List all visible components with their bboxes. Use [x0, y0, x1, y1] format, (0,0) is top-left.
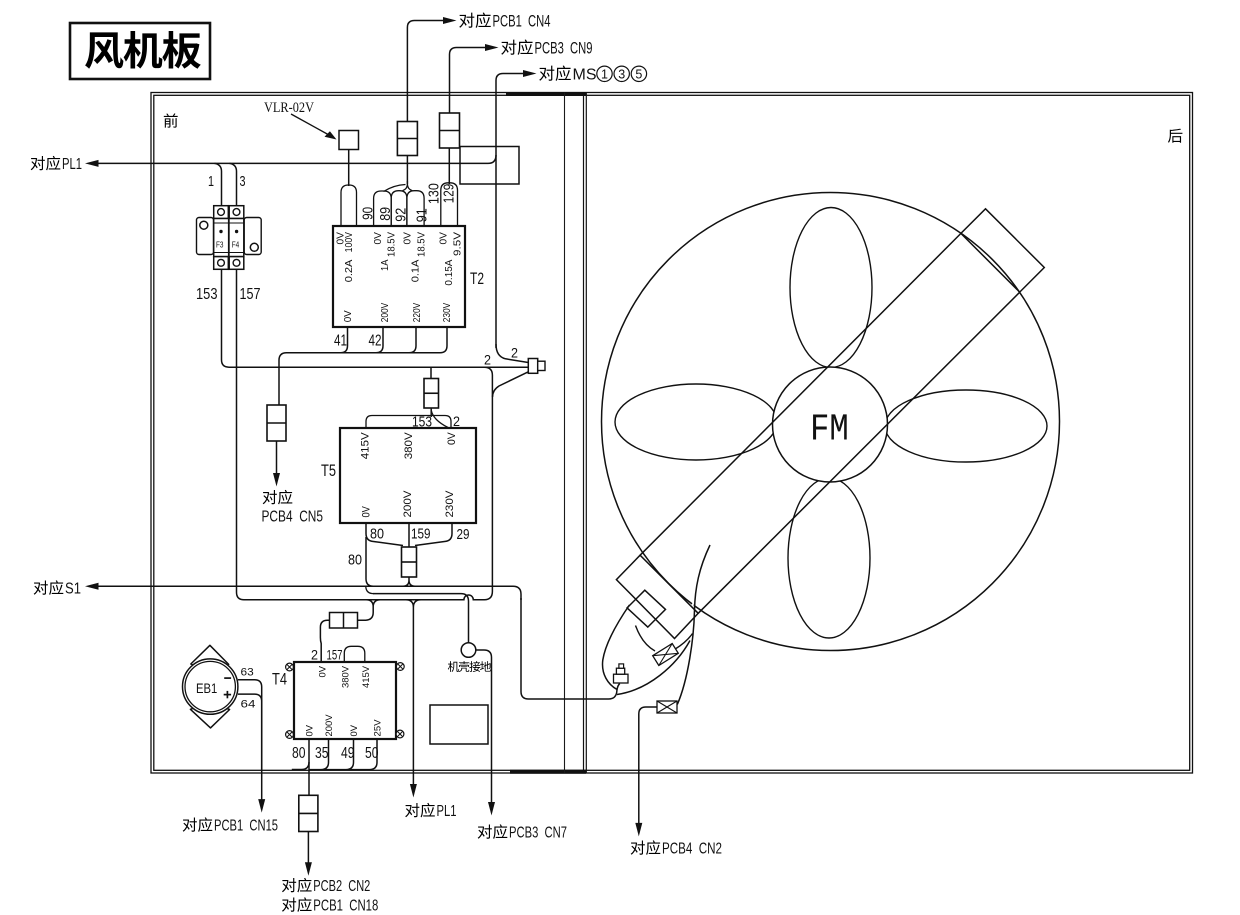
T2 pill feeds: [384, 181, 413, 192]
svg-text:220V: 220V: [412, 303, 423, 323]
EB1 outer circle: [183, 659, 238, 714]
label 对应PCB4 CN2: [631, 840, 645, 854]
label 对应 CN5: [263, 490, 277, 504]
VLR-02V box: [339, 131, 359, 150]
svg-text:415V: 415V: [361, 665, 372, 688]
wire PL1 bottom stub: [412, 772, 414, 786]
svg-text:29: 29: [457, 526, 470, 543]
svg-text:PCB2 CN2: PCB2 CN2: [313, 878, 370, 895]
svg-text:MS: MS: [573, 67, 597, 84]
arrowhead S1: [85, 583, 99, 590]
wire C5 to busS1: [403, 577, 415, 586]
svg-text:0V: 0V: [373, 232, 384, 245]
svg-text:157: 157: [327, 647, 343, 663]
label 对应PCB1 CN18: [282, 897, 296, 911]
arrowhead MS135: [523, 70, 537, 77]
bus S1 left part: [98, 586, 521, 600]
bar cap bottom R1: [616, 555, 698, 638]
label 对应S1: [34, 580, 48, 594]
svg-text:129: 129: [441, 184, 458, 204]
bus 153-plug: [229, 366, 528, 368]
svg-text:18.5V: 18.5V: [386, 232, 397, 257]
wire 157 down: [237, 269, 245, 599]
arrowhead PCB3 CN7: [488, 802, 495, 816]
svg-text:EB1: EB1: [196, 681, 217, 696]
svg-text:18.5V: 18.5V: [417, 232, 428, 257]
wire VLR to T2: [348, 150, 350, 187]
title text 风机板: [85, 32, 123, 68]
svg-text:153: 153: [196, 286, 218, 303]
svg-text:49: 49: [341, 745, 355, 762]
svg-text:41: 41: [334, 333, 347, 350]
T4 bottom wires: [308, 739, 310, 795]
svg-text:0V: 0V: [318, 665, 329, 677]
divider line left: [564, 93, 566, 774]
svg-text:415V: 415V: [359, 432, 371, 460]
bowtie connector 1: [653, 644, 679, 666]
arrowhead PCB1 CN15: [258, 799, 265, 813]
wire ground to CN7: [476, 650, 492, 772]
svg-text:200V: 200V: [402, 490, 414, 518]
svg-text:F3: F3: [216, 240, 224, 250]
svg-text:157: 157: [240, 286, 261, 303]
svg-text:PCB4 CN2: PCB4 CN2: [662, 841, 722, 858]
title box 风机板: [70, 23, 210, 79]
svg-text:VLR-02V: VLR-02V: [264, 100, 314, 116]
bar edge B: [698, 292, 1019, 613]
svg-text:0V: 0V: [403, 232, 414, 245]
svg-text:380V: 380V: [340, 665, 351, 688]
svg-text:0.2A: 0.2A: [344, 259, 355, 282]
arrowhead PL1 bottom: [410, 784, 417, 798]
bar edge A: [640, 234, 961, 556]
wire 64: [238, 694, 262, 771]
svg-text:0V: 0V: [438, 232, 449, 245]
plug 2 body: [528, 359, 537, 374]
divider line pair: [583, 93, 585, 774]
MS elbow to plug: [496, 344, 528, 363]
label 对应PL1 left: [31, 156, 45, 170]
svg-text:2: 2: [511, 345, 518, 361]
svg-text:0V: 0V: [343, 310, 354, 322]
bus A T2-bottom: [279, 353, 440, 405]
svg-text:230V: 230V: [444, 490, 456, 518]
T5 lead bracket: [366, 416, 451, 429]
bus C 157 line: [244, 595, 485, 600]
wire 3 to fuse: [230, 163, 237, 205]
transformer T5 box: [340, 428, 476, 523]
plug diagonal wire: [493, 372, 529, 397]
junction hook 80-157: [366, 587, 374, 594]
VLR leader line: [291, 114, 329, 135]
svg-text:91: 91: [414, 208, 431, 222]
wire 1 to fuse: [215, 163, 222, 205]
label 对应PCB2 CN2: [282, 878, 296, 892]
motor lead right edge: [677, 545, 710, 705]
svg-text:80: 80: [348, 552, 362, 569]
svg-text:PL1: PL1: [62, 156, 82, 173]
arrowhead PCB4 CN2: [635, 823, 642, 837]
bowtie1 feed wires: [636, 626, 693, 652]
border thick bottom segment: [510, 770, 586, 774]
EB1 minus: [224, 677, 231, 679]
svg-text:0V: 0V: [305, 724, 316, 736]
wire CN7 below border: [491, 772, 493, 804]
FM plug: [614, 674, 629, 683]
wire C3 to T5: [430, 408, 432, 417]
fuse block F3 F4: [197, 218, 214, 255]
label 对应MS①③⑤: [539, 66, 554, 81]
wire MS vertical: [496, 74, 523, 349]
svg-text:230V: 230V: [442, 303, 453, 323]
label 对应PCB1 CN4: [459, 13, 474, 28]
label 后: [1168, 129, 1182, 143]
wire C1 to T2: [406, 156, 408, 185]
connector C4: [267, 405, 286, 441]
svg-text:90: 90: [360, 207, 377, 220]
svg-text:2: 2: [311, 647, 318, 663]
svg-text:89: 89: [377, 207, 394, 221]
svg-text:100V: 100V: [344, 232, 355, 253]
fan blade right: [885, 390, 1047, 462]
svg-text:80: 80: [370, 526, 384, 543]
svg-text:2: 2: [484, 352, 491, 368]
T5 bracket branch: [431, 410, 448, 428]
motor lead left edge: [603, 605, 630, 690]
svg-text:PCB4 CN5: PCB4 CN5: [262, 509, 324, 526]
wire 80 down: [366, 537, 374, 586]
VLR leader arrowhead: [325, 131, 337, 139]
svg-text:42: 42: [369, 333, 382, 350]
arrowhead PCB4 CN5: [273, 473, 280, 487]
T5 bottom wires: [366, 523, 452, 547]
svg-text:35: 35: [315, 745, 329, 762]
bowtie connector 2: [657, 701, 677, 713]
label 机壳接地: [448, 661, 459, 672]
wire drop to C6: [358, 600, 381, 621]
label 对应PCB3 CN9: [501, 40, 516, 55]
transformer T2 box: [333, 226, 465, 327]
svg-text:1: 1: [601, 68, 608, 82]
svg-text:0V: 0V: [360, 506, 372, 518]
svg-text:9.5V: 9.5V: [452, 232, 463, 256]
wire drop to C3: [430, 367, 432, 378]
wire plug branch down: [484, 367, 492, 600]
svg-text:159: 159: [411, 526, 431, 543]
connector C6: [330, 613, 358, 629]
border thick top segment: [506, 92, 586, 96]
FM hub circle: [773, 367, 888, 482]
arrowhead PL1 left: [85, 160, 99, 167]
fan blade bottom: [788, 478, 870, 638]
svg-text:200V: 200V: [324, 714, 335, 737]
svg-text:T5: T5: [321, 462, 336, 480]
junction box: [460, 147, 519, 185]
svg-text:200V: 200V: [380, 303, 391, 323]
connector C7: [299, 795, 318, 831]
svg-text:PCB3 CN7: PCB3 CN7: [509, 825, 567, 842]
wire to PCB1 CN4: [407, 21, 443, 122]
svg-text:FM: FM: [810, 408, 849, 451]
wire to PCB3 CN9: [450, 48, 486, 114]
fan blade left: [615, 384, 777, 460]
fan blade top: [790, 208, 872, 368]
plug 2 nub: [538, 361, 545, 370]
svg-text:64: 64: [241, 699, 256, 711]
wire C6 to T4: [320, 620, 329, 662]
wire C7 arrow: [307, 832, 309, 865]
label 对应PL1 bottom: [405, 803, 419, 817]
T2 lead pills: [341, 185, 357, 226]
motor lead bundle fill: [603, 600, 694, 702]
svg-text:3: 3: [618, 68, 625, 82]
empty box: [430, 705, 488, 744]
wire 153 down: [222, 269, 230, 367]
svg-text:50: 50: [365, 745, 379, 762]
connector C2: [440, 113, 460, 148]
fan rim: [602, 193, 1060, 651]
svg-text:63: 63: [241, 667, 254, 679]
connector C1: [397, 122, 417, 156]
svg-text:PCB1 CN4: PCB1 CN4: [493, 13, 551, 31]
chassis ground circle: [461, 643, 476, 658]
svg-text:80: 80: [292, 745, 306, 762]
EB1 flange bottom tab: [190, 705, 229, 727]
motor swoop wire: [617, 641, 690, 695]
T4 jumper 380-415: [344, 646, 365, 662]
arrowhead PCB1 CN4: [443, 17, 457, 24]
arrowhead PCB2 CN2: [305, 862, 312, 876]
svg-text:T2: T2: [470, 270, 484, 288]
wire bowtie2 to CN2: [639, 707, 657, 825]
svg-text:380V: 380V: [403, 432, 415, 460]
panel border outer: [151, 93, 1193, 774]
svg-text:PCB1 CN15: PCB1 CN15: [214, 818, 278, 835]
svg-text:PCB3 CN9: PCB3 CN9: [535, 40, 593, 58]
svg-text:0V: 0V: [446, 432, 458, 445]
svg-text:0.15A: 0.15A: [444, 259, 455, 285]
transformer T4 box: [294, 662, 396, 739]
svg-text:F4: F4: [232, 240, 240, 250]
svg-text:3: 3: [240, 173, 246, 190]
connector C3: [424, 379, 439, 409]
svg-text:0.1A: 0.1A: [411, 259, 422, 282]
svg-text:S1: S1: [65, 581, 81, 598]
svg-text:0V: 0V: [349, 724, 360, 736]
bar cap top-right: [961, 209, 1044, 292]
svg-text:PL1: PL1: [437, 803, 457, 820]
arrowhead PCB3 CN9: [485, 44, 499, 51]
wire C4 arrow: [276, 441, 278, 475]
panel border inner: [154, 95, 1190, 770]
label 前: [164, 113, 178, 127]
wire C2 to T2: [448, 148, 450, 184]
connector C5: [402, 547, 417, 577]
svg-text:92: 92: [392, 208, 409, 222]
svg-text:5: 5: [635, 68, 642, 82]
T4 corner screws: [286, 663, 294, 671]
bar cap bottom R2: [627, 590, 665, 627]
svg-text:PCB1 CN18: PCB1 CN18: [313, 898, 378, 915]
EB1 inner circle: [185, 661, 235, 711]
EB1 plus: [224, 694, 231, 696]
label 对应PCB1 CN15: [183, 817, 197, 831]
bus S1 to FM right part: [521, 598, 620, 699]
EB1 flange top tab: [191, 645, 229, 668]
wire PL1 horizontal: [98, 155, 496, 163]
wire 63: [238, 680, 262, 802]
svg-text:1: 1: [208, 173, 214, 190]
svg-text:1A: 1A: [380, 259, 391, 271]
label 对应PCB3 CN7: [478, 824, 492, 838]
wire drop to PL1 bottom: [406, 600, 421, 772]
T2 bottom wires: [341, 327, 348, 353]
svg-text:2: 2: [453, 413, 460, 429]
bus S1-branch to ground: [373, 594, 469, 643]
svg-text:T4: T4: [272, 671, 287, 689]
svg-text:25V: 25V: [373, 719, 384, 737]
